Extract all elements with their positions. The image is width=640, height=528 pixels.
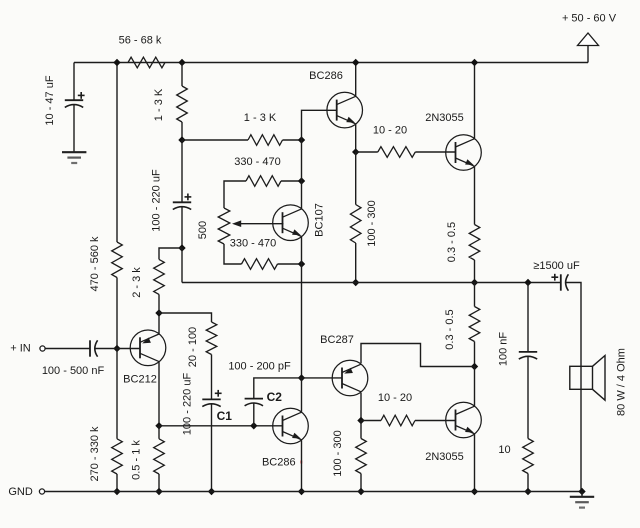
wire 2N3055 lower collector up	[474, 367, 476, 407]
node top rail / 2N3055 collector	[471, 59, 478, 66]
svg-text:BC107: BC107	[314, 203, 326, 237]
wire to ground symbol	[581, 492, 583, 497]
wire R 100-300 lower to ground	[360, 474, 362, 492]
polarity + of C7 1500uF	[551, 274, 558, 281]
node top rail / R 1-3K	[178, 59, 185, 66]
label BC287	[320, 334, 354, 346]
label 2-3k	[131, 267, 143, 298]
wire R 100-300 upper to output rail	[355, 243, 357, 283]
svg-text:≥1500 uF: ≥1500 uF	[533, 260, 580, 272]
wire R 1-3K horizontal to node D	[283, 139, 302, 141]
label 100-300 lower	[332, 430, 344, 476]
node ground / 2N3055 emitter	[471, 488, 478, 495]
artifact red dot	[300, 461, 303, 464]
svg-text:0.5 - 1 k: 0.5 - 1 k	[131, 440, 143, 480]
wire node I to R 20-100	[159, 313, 212, 322]
svg-text:500: 500	[197, 221, 209, 239]
resistor 10-20 upper	[378, 147, 416, 158]
label 10-47uF	[44, 75, 56, 125]
label 1500uF	[533, 260, 580, 272]
label 270-330k	[89, 426, 101, 482]
resistor 10-20 lower	[381, 415, 415, 426]
wire output rail	[182, 282, 561, 284]
wire C4 to ground	[73, 105, 75, 152]
wire node B to C5	[181, 140, 183, 202]
capacitor C1 100-220uF	[202, 399, 220, 406]
node output mid	[471, 279, 478, 286]
svg-text:+ 50 - 60 V: + 50 - 60 V	[562, 13, 617, 25]
svg-text:C2: C2	[267, 390, 283, 404]
resistor 1-3K vertical	[177, 86, 188, 122]
svg-text:470 - 560 k: 470 - 560 k	[89, 236, 101, 292]
node M	[250, 422, 257, 429]
svg-text:10 - 47 uF: 10 - 47 uF	[44, 75, 56, 125]
label 100-300 upper	[366, 200, 378, 246]
svg-text:80 W / 4 Ohm: 80 W / 4 Ohm	[616, 348, 628, 416]
node F	[298, 177, 305, 184]
wire C7 to speaker corner	[566, 283, 581, 367]
label 500	[197, 221, 209, 239]
resistor 0.3-0.5 upper	[469, 225, 480, 261]
wire C2 bottom lead	[253, 403, 255, 425]
node top rail / BC286 collector	[352, 59, 359, 66]
label 0.3-0.5 upper	[446, 222, 458, 262]
wire R 330-470 lower to rail	[278, 263, 302, 265]
svg-text:100 - 500 nF: 100 - 500 nF	[42, 365, 105, 377]
ground right	[570, 497, 594, 508]
label 1-3K vertical	[153, 88, 165, 121]
label 1-3K horizontal	[244, 112, 277, 124]
wire node K to R 100-300 lower	[360, 421, 362, 439]
capacitor 100-220uF upper	[173, 202, 191, 209]
wire C2 to node H	[254, 378, 302, 399]
node ground / BC286 emitter	[298, 488, 305, 495]
node B	[178, 136, 185, 143]
node K	[357, 417, 364, 424]
wire node D to node F	[301, 140, 303, 181]
node ground / R 10	[524, 488, 531, 495]
svg-text:0.3 - 0.5: 0.3 - 0.5	[446, 222, 458, 262]
svg-text:100 - 220 uF: 100 - 220 uF	[151, 169, 163, 232]
label 56-68k	[119, 35, 162, 47]
svg-text:1 - 3 K: 1 - 3 K	[153, 88, 165, 121]
resistor 100-300 upper	[350, 205, 361, 244]
resistor 470-560k	[112, 242, 123, 278]
wire node E to R 10-20 upper	[356, 151, 378, 153]
wire R 1-3K to node B	[181, 122, 183, 140]
wire pot top corner	[224, 181, 246, 208]
wire BC212 emitter up	[158, 313, 160, 334]
svg-text:C1: C1	[217, 409, 233, 423]
wire node H to BC287 base	[302, 377, 343, 379]
wire R 470-560k to input node	[116, 278, 118, 349]
resistor 10	[523, 439, 534, 474]
wire C6 to input node	[95, 348, 117, 350]
label GND	[8, 486, 33, 498]
node L	[155, 422, 162, 429]
node ground / R 0.5-1k	[155, 488, 162, 495]
svg-text:10: 10	[498, 444, 510, 456]
wire BC286 emitter down	[355, 124, 357, 152]
wire C1 to ground	[211, 404, 213, 491]
svg-text:BC286: BC286	[309, 70, 343, 82]
transistor Q5 BC287	[332, 360, 368, 396]
wire 2N3055 upper collector to rail	[474, 63, 476, 139]
wire node D to BC286 base	[302, 110, 338, 140]
capacitor 1500uF	[561, 274, 569, 290]
wire node G down to node H	[301, 264, 303, 378]
svg-text:270 - 330 k: 270 - 330 k	[89, 426, 101, 482]
label 330-470 upper	[234, 156, 280, 168]
label 330-470 lower	[230, 237, 276, 249]
label 0.3-0.5 lower	[444, 309, 456, 349]
resistor 0.3-0.5 lower	[469, 307, 480, 342]
wire R 330-470 upper to rail	[281, 180, 302, 182]
label 100-500nF	[42, 365, 105, 377]
node ground / R 100-300	[357, 488, 364, 495]
wire speaker through	[580, 366, 582, 491]
label 80W/4Ohm	[616, 348, 628, 416]
wire R 270-330k to ground rail	[116, 474, 118, 492]
polarity + of C1	[215, 390, 222, 397]
svg-text:56 - 68 k: 56 - 68 k	[119, 35, 162, 47]
label 2N3055 upper	[425, 112, 464, 124]
ground terminal	[39, 489, 44, 494]
svg-text:1 - 3 K: 1 - 3 K	[244, 112, 277, 124]
svg-text:BC287: BC287	[320, 334, 354, 346]
svg-text:10 - 20: 10 - 20	[378, 392, 412, 404]
node J	[471, 363, 478, 370]
svg-text:100 - 200 pF: 100 - 200 pF	[228, 360, 291, 372]
svg-text:330 - 470: 330 - 470	[234, 156, 280, 168]
label 10-20 upper	[373, 124, 407, 136]
label 20-100	[187, 327, 199, 367]
polarity + of 100-220uF upper	[185, 194, 192, 201]
label BC107	[314, 203, 326, 237]
label BC212	[123, 374, 157, 386]
label BC286 upper	[309, 70, 343, 82]
speaker LS1	[570, 356, 605, 401]
wire BC286 lower emitter to ground	[301, 440, 303, 491]
wire R 0.5-1k to ground	[158, 474, 160, 492]
polarity + of 10-47uF	[78, 92, 85, 99]
node ground / R 270-330k	[113, 488, 120, 495]
label +IN	[10, 343, 31, 355]
node E emitter BC286	[352, 148, 359, 155]
svg-text:20 - 100: 20 - 100	[187, 327, 199, 367]
wire R 10 to ground	[527, 474, 529, 492]
capacitor 100-500nF	[90, 340, 98, 356]
label C1	[217, 409, 233, 423]
capacitor C2	[245, 399, 263, 406]
node ground / C1	[208, 488, 215, 495]
svg-text:BC212: BC212	[123, 374, 157, 386]
label 2N3055 lower	[425, 451, 464, 463]
wire pot bottom corner	[224, 244, 242, 264]
wire BC286 lower collector up	[301, 378, 303, 412]
transistor Q4 2N3055 upper	[446, 135, 482, 171]
wire node L to BC286 base	[159, 425, 283, 427]
wire BC212 collector down	[158, 362, 160, 426]
wire BC107 emitter down	[301, 237, 303, 264]
svg-text:BC286: BC286	[262, 456, 296, 468]
svg-text:GND: GND	[8, 486, 33, 498]
wire output to R 0.3-0.5 lower	[474, 283, 476, 307]
wire C3 column	[527, 283, 529, 352]
wire BC107 collector up	[301, 181, 303, 209]
node D	[298, 136, 305, 143]
wire 2N3055 upper emitter down	[474, 166, 476, 224]
node top rail / R divider	[113, 59, 120, 66]
transistor Q2 BC107	[273, 205, 309, 241]
node output / R 100-300	[352, 279, 359, 286]
label +50-60V	[562, 13, 617, 25]
wire R 10-20 lower to 2N3055 base	[415, 420, 456, 422]
label BC286 lower	[262, 456, 296, 468]
ground left	[62, 152, 86, 163]
resistor 100-300 lower	[356, 439, 367, 474]
resistor 2-3k	[154, 259, 165, 294]
node input bias	[113, 345, 120, 352]
wire node J to BC287 emitter	[361, 344, 475, 367]
transistor Q3 BC286 upper	[327, 92, 363, 128]
capacitor 10-47uF	[65, 100, 83, 107]
wire top supply rail	[74, 62, 588, 64]
wire input node to BC212 base	[117, 348, 140, 350]
resistor 20-100	[206, 322, 217, 355]
node ground right	[578, 488, 585, 495]
wire input node to R 270-330k	[116, 349, 118, 439]
wire C5 to node C	[181, 207, 183, 248]
svg-text:2N3055: 2N3055	[425, 112, 464, 124]
node output / C3	[524, 279, 531, 286]
wire node K to R 10-20 lower	[361, 420, 381, 422]
wire R 2-3k to node I	[158, 294, 160, 313]
potentiometer 500	[218, 208, 230, 244]
label 100nF	[498, 332, 510, 367]
wire node B to R 1-3K horizontal	[182, 139, 248, 141]
wire 2N3055 lower emitter to ground	[474, 434, 476, 492]
transistor Q1 BC212	[130, 330, 166, 366]
wire BC286 collector to rail	[355, 63, 357, 97]
wire R 0.3-0.5 lower to node J	[474, 342, 476, 367]
wire R 20-100 to C1	[211, 355, 213, 400]
wire input to C6	[45, 348, 90, 350]
resistor 270-330k	[112, 439, 123, 474]
svg-text:2N3055: 2N3055	[425, 451, 464, 463]
wire feedback node C to output rail	[181, 248, 183, 283]
wire rail to R 1-3K	[181, 63, 183, 87]
wire 2-3k corner	[159, 248, 182, 259]
label 100-200pF	[228, 360, 291, 372]
transistor Q6 2N3055 lower	[446, 402, 482, 438]
wire ground rail	[45, 491, 582, 493]
wire BC287 collector down	[360, 393, 362, 421]
svg-text:+ IN: + IN	[10, 343, 31, 355]
svg-text:100 - 300: 100 - 300	[366, 200, 378, 246]
svg-text:0.3 - 0.5: 0.3 - 0.5	[444, 309, 456, 349]
pot wiper arrow	[232, 220, 284, 227]
resistor 330-470 upper	[246, 176, 281, 187]
node I	[155, 309, 162, 316]
wire node L to R 0.5-1k	[158, 426, 160, 439]
svg-text:2 - 3 k: 2 - 3 k	[131, 267, 143, 298]
power terminal +50-60V	[578, 33, 599, 63]
resistor 1-3K horizontal	[248, 135, 283, 146]
svg-text:100 nF: 100 nF	[498, 332, 510, 367]
wire rail to R 470-560k	[116, 63, 118, 243]
resistor 56-68k	[128, 57, 165, 68]
svg-text:100 - 300: 100 - 300	[332, 430, 344, 476]
svg-text:10 - 20: 10 - 20	[373, 124, 407, 136]
svg-text:330 - 470: 330 - 470	[230, 237, 276, 249]
label 0.5-1k	[131, 440, 143, 480]
wire node E down to R 100-300	[355, 152, 357, 205]
label 100-220uF lower	[182, 373, 194, 436]
label 100-220uF upper	[151, 169, 163, 232]
transistor Q7 BC286 lower	[273, 408, 309, 444]
node H	[298, 374, 305, 381]
capacitor C3 100nF	[519, 352, 537, 359]
wire supply to C4	[73, 63, 75, 101]
label 10	[498, 444, 510, 456]
label 10-20 lower	[378, 392, 412, 404]
wire C3 to R 10	[527, 357, 529, 439]
resistor 330-470 lower	[242, 259, 278, 270]
resistor 0.5-1k	[154, 439, 165, 474]
wire R 0.3-0.5 upper to output rail	[474, 260, 476, 283]
label 470-560k	[89, 236, 101, 292]
input terminal	[40, 346, 45, 351]
node G	[298, 260, 305, 267]
label C2	[267, 390, 283, 404]
wire R 10-20 upper to 2N3055 base	[415, 151, 455, 153]
node C	[178, 244, 185, 251]
